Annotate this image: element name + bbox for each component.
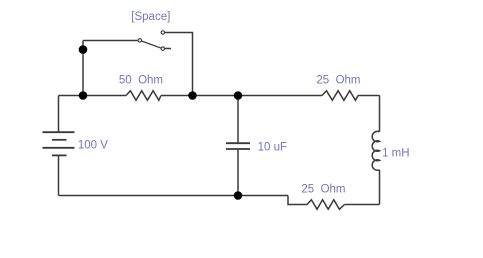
junction dot switch branch — [79, 45, 88, 54]
svg-text:1 mH: 1 mH — [382, 148, 409, 160]
wire switch branch vertical — [82, 41, 84, 96]
wire switch branch horizontal — [83, 40, 138, 42]
resistor R3 zigzag — [307, 200, 345, 210]
switch S1 upper contact circle — [161, 31, 164, 34]
battery V1 plates — [43, 132, 75, 155]
wire switch right to junction — [165, 33, 193, 96]
wire bottom right to step — [288, 196, 307, 205]
wire bottom right segment — [345, 204, 380, 206]
junction dot capacitor top — [234, 91, 243, 100]
wire top rail middle segment — [161, 95, 322, 97]
capacitor C1 plates — [226, 143, 250, 149]
wire top rail right segment — [358, 95, 380, 97]
switch S1 lower stub — [165, 48, 172, 50]
inductor L1 arcs — [372, 131, 379, 170]
wire top rail left segment — [59, 95, 127, 97]
wire right vertical upper — [379, 96, 381, 132]
svg-text:[Space]: [Space] — [131, 11, 170, 23]
resistor R1 zigzag — [126, 91, 161, 101]
svg-text:50 Ohm: 50 Ohm — [119, 74, 163, 86]
svg-text:25 Ohm: 25 Ohm — [301, 184, 345, 196]
capacitor C1 top lead — [237, 96, 239, 144]
wire left vertical upper (battery top lead) — [58, 96, 60, 133]
switch S1 lower contact circle — [161, 47, 164, 50]
junction dot switch/rail — [188, 91, 197, 100]
svg-text:100 V: 100 V — [78, 140, 108, 152]
wire left vertical lower (battery bottom lead) — [58, 155, 60, 195]
svg-text:10 uF: 10 uF — [258, 142, 287, 154]
resistor R2 zigzag — [322, 91, 358, 101]
svg-text:25 Ohm: 25 Ohm — [316, 74, 360, 86]
wire right vertical lower — [379, 170, 381, 205]
junction dot capacitor bottom — [234, 191, 243, 200]
wire bottom rail — [59, 195, 289, 197]
capacitor C1 bottom lead — [237, 149, 239, 196]
switch S1 blade — [142, 41, 163, 48]
switch S1 left contact circle — [138, 39, 141, 42]
junction dot left rail — [79, 91, 88, 100]
